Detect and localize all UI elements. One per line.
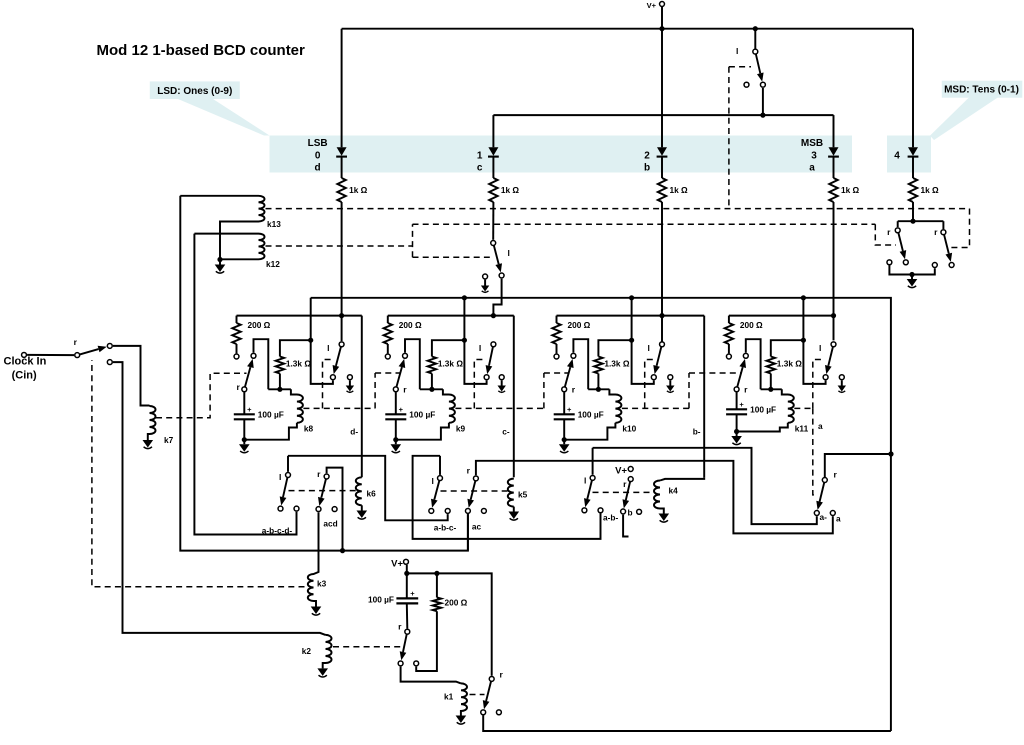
wire cap top (k10 cell) bbox=[563, 393, 565, 415]
dashed link k13 to MSD right bbox=[949, 209, 970, 248]
wire MSD left stem bbox=[897, 221, 899, 227]
r switch NO contact (k9 cell) bbox=[403, 353, 408, 358]
wire LED 4 anode drop bbox=[912, 29, 914, 148]
svg-text:1.3k Ω: 1.3k Ω bbox=[604, 359, 629, 369]
ground l switch (k8 cell) bbox=[346, 386, 354, 393]
l switch common (k10 cell) bbox=[660, 342, 665, 347]
ground k12 k13 bbox=[215, 265, 226, 274]
wire r NO path (k9 cell) bbox=[405, 339, 420, 389]
bottom r NO contact bbox=[398, 661, 403, 666]
junction cell k8 LED column bbox=[339, 313, 344, 318]
l switch NC contact (k8 cell) bbox=[330, 375, 335, 380]
ground k5 bbox=[509, 512, 520, 521]
svg-text:1k Ω: 1k Ω bbox=[841, 185, 860, 195]
V+ terminal bbox=[660, 2, 665, 7]
g2 r common contact bbox=[473, 476, 478, 481]
wire cap gnd stem (k9 cell) bbox=[395, 440, 397, 445]
MSD left NC contact bbox=[887, 260, 892, 265]
svg-text:l: l bbox=[648, 343, 650, 353]
svg-text:V+: V+ bbox=[615, 466, 627, 477]
wire coil bottom k10 bbox=[564, 423, 615, 440]
svg-text:r: r bbox=[887, 227, 891, 237]
resistor 200 ohm (k9 cell) bbox=[384, 323, 392, 344]
svg-text:LSD: Ones (0-9): LSD: Ones (0-9) bbox=[157, 86, 232, 97]
wire MSD ground link bbox=[889, 266, 934, 275]
wire k12 top lead bbox=[194, 233, 258, 235]
k1 r NC contact bbox=[496, 710, 501, 715]
svg-text:k13: k13 bbox=[267, 219, 281, 229]
terminal 200 ohm k11 bbox=[726, 354, 731, 359]
V+ terminal (g3) bbox=[628, 467, 633, 472]
svg-text:1k Ω: 1k Ω bbox=[670, 185, 689, 195]
svg-text:200 Ω: 200 Ω bbox=[445, 598, 468, 608]
junction switch row bbox=[760, 113, 765, 118]
g3 r common contact bbox=[628, 477, 633, 482]
r switch common (k9 cell) bbox=[393, 387, 398, 392]
ground k2 bbox=[317, 668, 328, 677]
g3 r NO contact bbox=[621, 509, 626, 514]
wire acd line bbox=[318, 512, 320, 571]
junction 1.3k bottom (k10 cell) bbox=[596, 387, 601, 392]
resistor 1k (LED 2 b) bbox=[658, 178, 666, 202]
l switch spare contact (k9 cell) bbox=[499, 375, 504, 380]
junction cell2 riser bbox=[462, 295, 467, 300]
ground l switch (k10 cell) bbox=[666, 386, 674, 393]
svg-text:k5: k5 bbox=[518, 490, 528, 500]
MSD highlight band bbox=[887, 136, 931, 173]
wire cap bottom (k10 cell) bbox=[563, 419, 565, 439]
wire 1.3k bottom k11 bbox=[770, 374, 772, 390]
g4 r NC contact bbox=[830, 511, 835, 516]
wire g3 chain bbox=[593, 448, 817, 524]
dashed link k12 upper bbox=[413, 223, 876, 225]
svg-text:200 Ω: 200 Ω bbox=[248, 320, 271, 330]
wire spare stem (k11 cell) bbox=[841, 380, 843, 385]
wire 200 drop k11 bbox=[728, 316, 730, 323]
svg-text:LSB: LSB bbox=[308, 138, 328, 149]
r switch common (k8 cell) bbox=[242, 387, 247, 392]
svg-text:4: 4 bbox=[894, 151, 900, 162]
MSD left common contact bbox=[895, 228, 900, 233]
svg-text:l: l bbox=[327, 343, 329, 353]
relay coil k13 bbox=[259, 196, 265, 222]
ground cap (k8 cell) bbox=[239, 444, 250, 453]
g3 l common contact bbox=[590, 475, 595, 480]
svg-text:100 µF: 100 µF bbox=[409, 409, 435, 419]
svg-text:l: l bbox=[279, 472, 281, 482]
resistor 1.3k (k11 cell) bbox=[767, 357, 775, 374]
mid switch spare contact bbox=[483, 274, 488, 279]
wire R a drop bbox=[833, 202, 835, 340]
svg-text:1k Ω: 1k Ω bbox=[349, 185, 368, 195]
svg-text:r: r bbox=[834, 470, 838, 480]
svg-text:k6: k6 bbox=[367, 489, 377, 499]
wire riser k11 bbox=[803, 298, 825, 384]
svg-text:2: 2 bbox=[644, 151, 650, 162]
wire LED 2 b cathode bbox=[661, 158, 663, 179]
wire c- line bbox=[513, 316, 515, 478]
r switch NO contact (k11 cell) bbox=[743, 353, 748, 358]
relay coil k8 bbox=[291, 389, 303, 423]
dashed link k12 bbox=[266, 245, 413, 247]
g2 l arm bbox=[434, 481, 439, 500]
g3 l arm bbox=[587, 481, 592, 500]
MSD right NO contact bbox=[949, 263, 954, 268]
capacitor 100uF (k9 cell) bbox=[385, 413, 406, 415]
wire g3 l stem bbox=[592, 448, 594, 475]
resistor 1.3k (k8 cell) bbox=[276, 357, 284, 374]
wire 200 drop k8 bbox=[236, 316, 238, 323]
wire 200 bottom k11 bbox=[728, 344, 730, 353]
svg-text:+: + bbox=[739, 400, 744, 409]
dashed link k1 bbox=[470, 694, 485, 696]
ground l switch (k9 cell) bbox=[498, 386, 506, 393]
svg-text:c: c bbox=[477, 163, 483, 174]
resistor 1.3k (k10 cell) bbox=[594, 357, 602, 374]
LED 2 b bbox=[657, 147, 668, 156]
junction MSD ground bbox=[909, 272, 914, 277]
MSD callout box bbox=[942, 81, 1023, 98]
top switch NO contact bbox=[760, 82, 765, 87]
svg-text:a: a bbox=[809, 163, 815, 174]
dashed link k12 riser bbox=[412, 224, 414, 257]
wire LED 4 cathode bbox=[912, 158, 914, 179]
wire coil bottom k9 bbox=[396, 423, 449, 440]
g1 r spare contact bbox=[332, 507, 337, 512]
wire cap bottom (k8 cell) bbox=[243, 419, 245, 439]
terminal 200 ohm k9 bbox=[385, 354, 390, 359]
wire R c drop to switch bbox=[492, 202, 494, 240]
wire k13 bottom lead bbox=[220, 222, 259, 260]
wire cell k9 top bbox=[388, 315, 514, 317]
wire cap gnd stem (k10 cell) bbox=[563, 440, 565, 445]
wire horizontal (k9 cell) bbox=[420, 388, 443, 390]
wire LED row c-a bbox=[493, 114, 833, 116]
l switch common (k9 cell) bbox=[491, 342, 496, 347]
svg-text:b: b bbox=[628, 508, 633, 518]
LSD callout box bbox=[150, 81, 240, 99]
dashed link top switch drop bbox=[728, 67, 730, 209]
g3 l NC contact bbox=[598, 508, 603, 513]
svg-text:l: l bbox=[584, 476, 586, 486]
wire g1 r stem bbox=[327, 468, 343, 551]
clock switch arm bbox=[80, 349, 99, 354]
terminal 200 ohm k10 bbox=[554, 354, 559, 359]
ground k4 bbox=[659, 514, 670, 523]
svg-text:a-b-c-: a-b-c- bbox=[434, 523, 457, 533]
r switch common (k11 cell) bbox=[734, 387, 739, 392]
LED 3 a bbox=[828, 147, 839, 156]
LED 4 bbox=[908, 147, 919, 156]
r switch NO contact (k10 cell) bbox=[571, 353, 576, 358]
dashed link k10 l-branch bbox=[645, 360, 657, 409]
wire LED a anode drop bbox=[833, 115, 835, 147]
wire k5 gnd stem bbox=[513, 507, 515, 512]
wire horizontal (k11 cell) bbox=[761, 388, 782, 390]
Clock In terminal bbox=[22, 352, 27, 357]
resistor 1k (LED 3 a) bbox=[829, 178, 837, 202]
dashed link k8 out bbox=[303, 407, 375, 409]
dashed link k8 riser bbox=[374, 373, 376, 408]
MSD right NC contact bbox=[932, 263, 937, 268]
svg-text:200 Ω: 200 Ω bbox=[568, 320, 591, 330]
wire R 4 drop bbox=[912, 202, 914, 221]
wire LED 0 d cathode bbox=[341, 158, 343, 179]
dashed link k11 a-line bbox=[813, 408, 818, 495]
l switch common (k11 cell) bbox=[831, 342, 836, 347]
wire coil bottom k8 bbox=[244, 423, 297, 440]
dashed link k9 out bbox=[455, 407, 544, 409]
wire 200 drop k10 bbox=[556, 316, 558, 323]
r switch common (k10 cell) bbox=[562, 387, 567, 392]
MSD right arm bbox=[944, 235, 949, 254]
dashed link k13 bbox=[266, 208, 970, 210]
svg-text:+: + bbox=[410, 589, 415, 598]
clock switch common contact bbox=[75, 353, 80, 358]
junction cell k10 LED column bbox=[659, 313, 664, 318]
svg-text:l: l bbox=[819, 343, 821, 353]
wire cap bottom (k9 cell) bbox=[395, 419, 397, 439]
svg-text:0: 0 bbox=[315, 151, 321, 162]
mid switch common contact bbox=[491, 241, 496, 246]
capacitor 100uF (k8 cell) bbox=[234, 413, 255, 415]
g1 r common contact bbox=[324, 474, 329, 479]
l switch spare contact (k8 cell) bbox=[347, 375, 352, 380]
wire mid switch out bbox=[493, 279, 501, 316]
svg-text:l: l bbox=[432, 476, 434, 486]
relay coil k7 bbox=[150, 406, 156, 434]
capacitor 100uF (bottom) bbox=[396, 597, 418, 599]
svg-text:r: r bbox=[403, 385, 407, 395]
dashed link k12 to MSD left bbox=[875, 224, 896, 245]
wire NC to 200 bbox=[416, 611, 437, 671]
wire k12 bottom lead bbox=[220, 258, 259, 260]
dashed link k5 bbox=[441, 490, 508, 492]
svg-text:c-: c- bbox=[502, 427, 510, 437]
wire k7 gnd lead bbox=[148, 434, 150, 440]
LED 0 d bbox=[336, 147, 347, 156]
l switch arm (k11 cell) bbox=[828, 347, 833, 366]
ground k7 bbox=[143, 440, 154, 449]
wire k4 gnd lead bbox=[660, 509, 664, 514]
dashed link k10 to next r bbox=[689, 372, 742, 374]
wire k12 ground stem bbox=[219, 260, 221, 265]
MSD left arm bbox=[898, 233, 903, 251]
junction riser k8 bbox=[308, 338, 313, 343]
g2 r NO contact bbox=[465, 508, 470, 513]
wire 200 drop k9 bbox=[387, 316, 389, 323]
g4 r arm bbox=[820, 483, 825, 502]
top switch arm bbox=[756, 54, 760, 73]
wire cap bottom (k11 cell) bbox=[736, 414, 738, 431]
svg-text:r: r bbox=[934, 227, 938, 237]
wire MSD gnd stem bbox=[911, 275, 913, 280]
wire cell k11 top bbox=[729, 315, 834, 317]
wire LED c anode drop bbox=[492, 115, 494, 147]
wire k2 gnd lead bbox=[323, 663, 326, 668]
LED 1 c bbox=[488, 147, 499, 156]
k1 r switch top contact bbox=[489, 676, 494, 681]
wire 1.3k branch k8 bbox=[280, 340, 311, 356]
wire r NO path (k8 cell) bbox=[254, 339, 269, 389]
wire horizontal (k8 cell) bbox=[268, 388, 291, 390]
wire LED 3 a cathode bbox=[833, 158, 835, 179]
junction k12 k13 ground bbox=[217, 257, 222, 262]
wire g1 l stem bbox=[287, 456, 289, 472]
svg-text:+: + bbox=[399, 405, 404, 414]
top switch NC contact bbox=[744, 82, 749, 87]
capacitor 100uF (k10 cell) bbox=[554, 413, 575, 415]
wire riser k10 bbox=[632, 298, 654, 384]
wire cap gnd stem (k8 cell) bbox=[243, 440, 245, 445]
wire bottom return bbox=[483, 716, 891, 732]
relay coil k9 bbox=[443, 389, 455, 423]
wire 1.3k branch k9 bbox=[432, 340, 465, 356]
wire 200 top bbox=[436, 573, 438, 597]
svg-text:r: r bbox=[500, 670, 504, 680]
wire k12 left riser bbox=[194, 234, 296, 535]
resistor 1k (LED 4) bbox=[909, 178, 917, 202]
wire cap gnd stem (k11 cell) bbox=[736, 432, 738, 437]
junction cell4 riser bbox=[801, 295, 806, 300]
wire g1 chain bbox=[288, 456, 448, 521]
svg-text:k2: k2 bbox=[302, 646, 312, 656]
svg-text:100 µF: 100 µF bbox=[578, 409, 604, 419]
svg-text:r: r bbox=[572, 385, 576, 395]
wire clock feed bbox=[27, 354, 74, 356]
svg-text:1.3k Ω: 1.3k Ω bbox=[438, 359, 463, 369]
wire r NO path (k10 cell) bbox=[573, 339, 588, 389]
bottom r NC contact bbox=[414, 661, 419, 666]
svg-text:(Cin): (Cin) bbox=[12, 370, 37, 382]
svg-text:1k Ω: 1k Ω bbox=[921, 185, 940, 195]
junction riser k9 bbox=[462, 338, 467, 343]
wire R d drop bbox=[341, 202, 343, 341]
wire MSD top bbox=[898, 220, 944, 222]
g3 r spare contact bbox=[637, 509, 642, 514]
terminal 200 ohm k8 bbox=[234, 354, 239, 359]
svg-text:d-: d- bbox=[350, 427, 358, 437]
V+ terminal (bottom) bbox=[404, 559, 409, 564]
g1 r arm bbox=[321, 479, 326, 498]
svg-text:k12: k12 bbox=[266, 259, 280, 269]
dashed link k8 l-branch bbox=[323, 360, 335, 409]
svg-text:r: r bbox=[623, 479, 627, 489]
junction 1.3k bottom (k8 cell) bbox=[277, 387, 282, 392]
wire horizontal (k10 cell) bbox=[588, 388, 609, 390]
dashed link k9 to next r bbox=[544, 372, 569, 374]
l switch arm (k8 cell) bbox=[336, 347, 341, 366]
svg-text:k10: k10 bbox=[622, 424, 636, 434]
l switch NC contact (k9 cell) bbox=[484, 375, 489, 380]
wire 1.3k branch k10 bbox=[598, 340, 631, 356]
junction cap ground (k10 cell) bbox=[562, 437, 567, 442]
svg-text:MSD: Tens (0-1): MSD: Tens (0-1) bbox=[944, 85, 1019, 96]
dashed link k2 bbox=[333, 646, 403, 648]
svg-text:k4: k4 bbox=[669, 486, 679, 496]
dashed link k8 to next r bbox=[375, 372, 401, 374]
r switch arm (k9 cell) bbox=[397, 367, 402, 387]
wire d- line bbox=[361, 316, 363, 478]
dashed link k11 out bbox=[794, 407, 813, 409]
svg-text:Mod 12 1-based BCD counter: Mod 12 1-based BCD counter bbox=[97, 42, 306, 59]
ground cap (k9 cell) bbox=[391, 444, 402, 453]
g4 r common contact bbox=[822, 478, 827, 483]
resistor 200 ohm (k8 cell) bbox=[232, 323, 240, 344]
relay coil k2 bbox=[326, 635, 332, 663]
g3 l NO contact bbox=[582, 508, 587, 513]
svg-text:b: b bbox=[644, 163, 650, 174]
wire 1.3k bottom k8 bbox=[279, 374, 281, 390]
wire k1 gnd lead bbox=[460, 711, 462, 716]
wire LED b anode drop bbox=[661, 29, 663, 148]
svg-text:r: r bbox=[317, 469, 321, 479]
ground k1 bbox=[456, 716, 467, 725]
mid switch arm bbox=[494, 246, 499, 265]
LSD callout pointer bbox=[178, 99, 270, 136]
g3 r arm bbox=[626, 482, 630, 500]
g2 l common contact bbox=[438, 476, 443, 481]
relay coil k1 bbox=[461, 683, 467, 711]
wire LED d anode drop bbox=[341, 29, 343, 148]
wire g2 r wire bbox=[476, 461, 833, 534]
svg-text:a: a bbox=[836, 514, 841, 524]
dashed link k7 out bbox=[156, 373, 247, 417]
wire MSD right stem bbox=[942, 221, 944, 229]
wire R b drop bbox=[661, 202, 663, 342]
mid switch NO contact bbox=[499, 273, 504, 278]
g2 r spare contact bbox=[481, 508, 486, 513]
wire cap to switch bbox=[406, 603, 409, 628]
junction cap ground (k11 cell) bbox=[734, 429, 739, 434]
junction cell k11 LED column bbox=[831, 313, 836, 318]
ground cap (k10 cell) bbox=[559, 444, 570, 453]
LSD highlight band bbox=[270, 136, 853, 173]
wire k4 feed bbox=[660, 477, 704, 480]
wire 1.3k bottom k10 bbox=[597, 374, 599, 390]
MSD left NO contact bbox=[903, 260, 908, 265]
wire top switch stem bbox=[754, 29, 756, 49]
wire clock NC to k2 bbox=[113, 362, 326, 635]
l switch spare contact (k11 cell) bbox=[839, 375, 844, 380]
dashed link k9 riser bbox=[543, 373, 545, 408]
wire clock NO to k7 bbox=[113, 346, 150, 406]
wire cap top (k8 cell) bbox=[243, 393, 245, 415]
ground MSD bbox=[907, 279, 918, 288]
r switch arm (k8 cell) bbox=[245, 367, 250, 387]
svg-text:d: d bbox=[315, 163, 321, 174]
resistor 1k (LED 1 c) bbox=[489, 178, 497, 202]
svg-text:l: l bbox=[479, 343, 481, 353]
wire spare stem (k10 cell) bbox=[669, 380, 671, 385]
bottom r arm bbox=[403, 634, 407, 652]
svg-text:1: 1 bbox=[477, 151, 483, 162]
junction cap ground (k8 cell) bbox=[242, 437, 247, 442]
ground k3 bbox=[311, 607, 322, 616]
svg-text:V+: V+ bbox=[391, 559, 403, 570]
relay coil k4 bbox=[654, 481, 660, 509]
g2 l NO contact bbox=[429, 508, 434, 513]
svg-text:l: l bbox=[736, 46, 738, 56]
wire g4 r wire bbox=[825, 454, 891, 480]
wire cap bottom top lead bbox=[406, 573, 408, 598]
relay coil k11 bbox=[782, 389, 794, 423]
svg-text:+: + bbox=[247, 405, 252, 414]
svg-text:100 µF: 100 µF bbox=[258, 409, 284, 419]
ground mid switch bbox=[481, 286, 489, 293]
bottom r switch common bbox=[405, 629, 410, 634]
wire LED 1 c cathode bbox=[492, 158, 494, 179]
